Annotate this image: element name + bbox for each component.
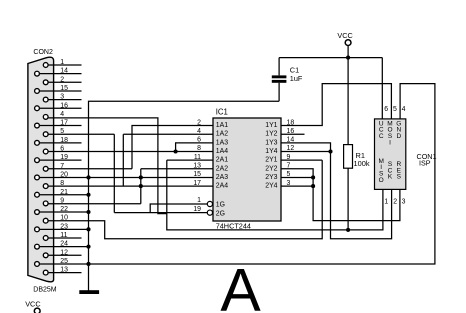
svg-text:10: 10: [60, 215, 68, 222]
svg-text:S: S: [397, 174, 402, 181]
svg-text:IC1: IC1: [216, 108, 228, 117]
svg-text:A: A: [220, 255, 261, 313]
svg-text:11: 11: [194, 154, 201, 161]
svg-text:2Y2: 2Y2: [265, 165, 277, 172]
svg-text:22: 22: [60, 206, 68, 213]
svg-text:74HCT244: 74HCT244: [216, 222, 251, 231]
svg-text:1Y4: 1Y4: [265, 148, 277, 155]
svg-text:3: 3: [60, 94, 64, 101]
svg-text:1A2: 1A2: [216, 131, 228, 138]
svg-text:17: 17: [193, 180, 201, 187]
svg-text:100k: 100k: [354, 159, 370, 168]
svg-text:1Y1: 1Y1: [265, 122, 277, 129]
svg-text:D: D: [396, 133, 401, 140]
svg-text:16: 16: [60, 102, 68, 109]
svg-text:19: 19: [60, 154, 68, 161]
svg-text:14: 14: [287, 137, 295, 144]
svg-text:1: 1: [197, 197, 201, 204]
svg-text:2Y1: 2Y1: [265, 157, 277, 164]
svg-text:1Y3: 1Y3: [265, 139, 277, 146]
svg-text:VCC: VCC: [25, 300, 40, 309]
svg-text:2A4: 2A4: [216, 183, 228, 190]
svg-text:1G: 1G: [216, 202, 225, 209]
svg-text:1: 1: [384, 198, 388, 205]
svg-text:12: 12: [60, 249, 68, 256]
svg-text:1uF: 1uF: [290, 74, 303, 83]
svg-text:3: 3: [287, 180, 291, 187]
svg-text:13: 13: [60, 267, 68, 274]
svg-text:18: 18: [287, 119, 295, 126]
svg-text:5: 5: [60, 128, 64, 135]
svg-text:6: 6: [384, 106, 388, 113]
svg-text:6: 6: [60, 146, 64, 153]
svg-text:18: 18: [60, 137, 68, 144]
svg-text:9: 9: [60, 197, 64, 204]
svg-text:2A3: 2A3: [216, 174, 228, 181]
svg-text:4: 4: [402, 106, 406, 113]
svg-text:3: 3: [402, 198, 406, 205]
svg-text:4: 4: [197, 128, 201, 135]
svg-text:2: 2: [197, 119, 201, 126]
svg-text:16: 16: [287, 128, 295, 135]
svg-text:2G: 2G: [216, 210, 225, 217]
svg-text:C: C: [379, 133, 384, 140]
svg-text:23: 23: [60, 223, 68, 230]
svg-text:1Y2: 1Y2: [265, 131, 277, 138]
svg-text:I: I: [389, 139, 391, 146]
svg-text:17: 17: [60, 120, 68, 127]
svg-text:24: 24: [60, 241, 68, 248]
svg-text:2: 2: [60, 76, 64, 83]
svg-text:7: 7: [60, 163, 64, 170]
svg-text:DB25M: DB25M: [33, 287, 57, 294]
svg-text:VCC: VCC: [337, 31, 352, 40]
svg-text:5: 5: [287, 171, 291, 178]
svg-text:1A1: 1A1: [216, 122, 228, 129]
svg-text:20: 20: [60, 171, 68, 178]
svg-text:25: 25: [60, 258, 68, 265]
svg-text:15: 15: [193, 171, 201, 178]
svg-text:1A4: 1A4: [216, 148, 228, 155]
svg-text:O: O: [379, 177, 384, 184]
svg-text:K: K: [388, 174, 393, 181]
svg-text:9: 9: [287, 154, 291, 161]
svg-text:ISP: ISP: [419, 159, 431, 168]
svg-text:2A1: 2A1: [216, 157, 228, 164]
svg-text:2Y4: 2Y4: [265, 183, 277, 190]
svg-text:13: 13: [193, 163, 201, 170]
svg-text:19: 19: [193, 206, 201, 213]
svg-text:CON2: CON2: [33, 49, 53, 56]
svg-text:12: 12: [287, 145, 295, 152]
svg-text:8: 8: [60, 180, 64, 187]
svg-text:2Y3: 2Y3: [265, 174, 277, 181]
svg-text:14: 14: [60, 68, 68, 75]
svg-text:21: 21: [60, 189, 68, 196]
svg-text:2A2: 2A2: [216, 165, 228, 172]
svg-text:4: 4: [60, 111, 64, 118]
svg-text:15: 15: [60, 85, 68, 92]
svg-text:5: 5: [393, 106, 397, 113]
svg-text:8: 8: [197, 145, 201, 152]
svg-text:2: 2: [393, 198, 397, 205]
svg-text:1A3: 1A3: [216, 139, 228, 146]
svg-text:1: 1: [60, 59, 64, 66]
svg-text:6: 6: [197, 137, 201, 144]
svg-text:7: 7: [287, 163, 291, 170]
svg-text:11: 11: [60, 232, 67, 239]
